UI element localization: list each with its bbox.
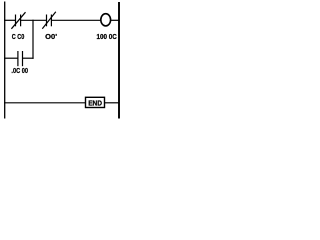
NO contact bars xyxy=(17,51,19,66)
NC contact XIC2 bars xyxy=(46,15,48,27)
NC contact XIC1 bars xyxy=(15,15,17,27)
svg-text:.0C 00: .0C 00 xyxy=(11,66,28,75)
branch vertical wire xyxy=(32,20,34,59)
wire rung1 middle segment xyxy=(21,19,47,21)
svg-text:END: END xyxy=(88,100,102,107)
wire rung2 left segment xyxy=(4,102,86,104)
wire coil to right rail xyxy=(110,19,119,21)
END box xyxy=(86,97,105,107)
right power rail xyxy=(118,2,120,119)
wire rung2 right segment xyxy=(104,102,119,104)
svg-text:O0': O0' xyxy=(45,32,57,41)
NC contact XIC1 slash xyxy=(11,12,25,29)
NC contact XIC2 slash xyxy=(42,12,56,29)
svg-text:C C0: C C0 xyxy=(12,32,25,41)
svg-text:100 0C: 100 0C xyxy=(97,32,117,41)
wire rung1 left segment xyxy=(4,19,16,21)
branch wire left segment xyxy=(4,57,18,59)
branch wire right segment xyxy=(23,57,34,59)
wire rung1 right segment xyxy=(51,19,101,21)
left power rail xyxy=(4,2,6,119)
output coil xyxy=(101,14,111,26)
